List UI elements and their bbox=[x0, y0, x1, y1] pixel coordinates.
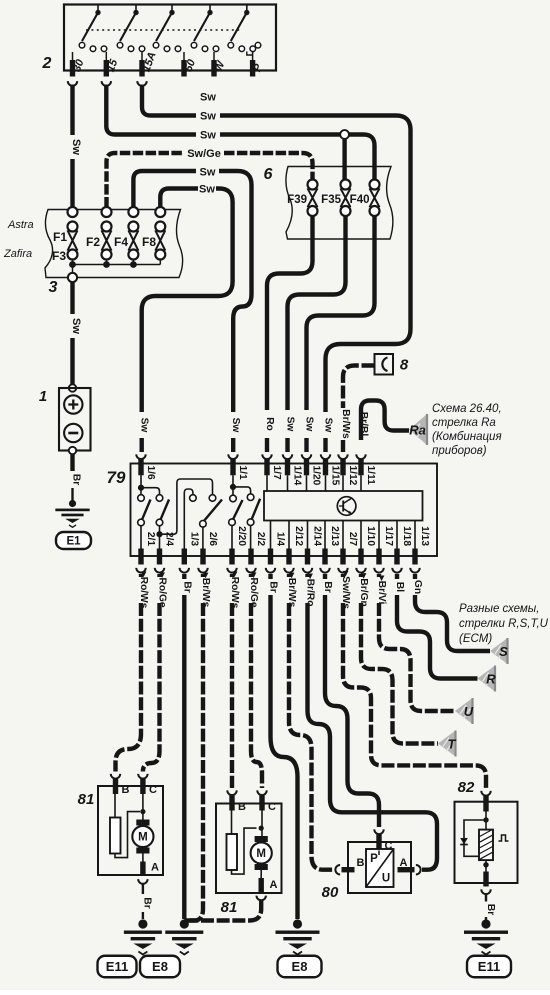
svg-text:E8: E8 bbox=[292, 959, 308, 974]
svg-text:1/12: 1/12 bbox=[347, 466, 358, 486]
svg-text:F35: F35 bbox=[321, 194, 341, 206]
svg-text:стрелка Ra: стрелка Ra bbox=[432, 417, 496, 429]
svg-text:E11: E11 bbox=[478, 959, 500, 974]
svg-text:Br/Ws: Br/Ws bbox=[340, 409, 351, 439]
svg-text:B: B bbox=[357, 857, 365, 869]
svg-text:▸Ro/Ge: ▸Ro/Ge bbox=[248, 571, 259, 607]
svg-text:▸Ro/Ge: ▸Ro/Ge bbox=[157, 571, 168, 607]
svg-text:▸Sw/Ws: ▸Sw/Ws bbox=[340, 570, 351, 609]
svg-text:(Комбинация: (Комбинация bbox=[432, 431, 502, 443]
svg-text:Astra: Astra bbox=[7, 219, 34, 231]
svg-text:(ECM): (ECM) bbox=[459, 633, 492, 645]
svg-text:C: C bbox=[149, 784, 157, 796]
svg-text:1/11: 1/11 bbox=[365, 466, 376, 486]
svg-text:F40: F40 bbox=[350, 194, 370, 206]
svg-text:1/15: 1/15 bbox=[330, 466, 341, 486]
svg-text:▸Br/Vi: ▸Br/Vi bbox=[376, 575, 387, 605]
svg-text:2/14: 2/14 bbox=[312, 526, 323, 546]
svg-text:Схема 26.40,: Схема 26.40, bbox=[432, 403, 502, 415]
svg-text:1/3: 1/3 bbox=[188, 532, 199, 546]
svg-text:S: S bbox=[499, 644, 508, 659]
svg-text:A: A bbox=[151, 862, 159, 874]
svg-text:1/4: 1/4 bbox=[275, 532, 286, 546]
svg-text:8: 8 bbox=[400, 357, 409, 374]
svg-text:U: U bbox=[464, 704, 474, 719]
svg-text:1: 1 bbox=[39, 388, 47, 405]
svg-text:Sw: Sw bbox=[323, 418, 334, 433]
svg-text:Sw: Sw bbox=[200, 91, 216, 103]
svg-text:82: 82 bbox=[458, 779, 475, 796]
svg-text:Sw: Sw bbox=[200, 110, 216, 122]
svg-text:F1: F1 bbox=[53, 230, 67, 244]
svg-text:M: M bbox=[138, 832, 148, 844]
svg-text:Bl: Bl bbox=[394, 582, 405, 592]
svg-text:1/14: 1/14 bbox=[292, 466, 303, 486]
svg-text:F39: F39 bbox=[287, 194, 307, 206]
svg-text:2/6: 2/6 bbox=[207, 532, 218, 546]
svg-text:2/12: 2/12 bbox=[293, 526, 304, 546]
svg-text:Sw: Sw bbox=[70, 318, 82, 334]
svg-text:U: U bbox=[382, 873, 390, 885]
svg-text:B: B bbox=[122, 784, 130, 796]
svg-text:2/13: 2/13 bbox=[329, 526, 340, 546]
svg-text:1/17: 1/17 bbox=[383, 526, 394, 546]
svg-text:80: 80 bbox=[322, 884, 339, 901]
svg-text:Gn: Gn bbox=[412, 580, 423, 594]
svg-text:Br: Br bbox=[268, 581, 279, 592]
svg-text:Br: Br bbox=[71, 474, 82, 485]
svg-text:Sw: Sw bbox=[304, 417, 315, 432]
svg-text:M: M bbox=[256, 848, 266, 860]
svg-text:1/20: 1/20 bbox=[311, 466, 322, 486]
svg-text:Br: Br bbox=[485, 904, 496, 915]
svg-text:Sw: Sw bbox=[200, 129, 216, 141]
svg-text:F8: F8 bbox=[142, 235, 156, 249]
svg-text:Br: Br bbox=[142, 897, 153, 908]
svg-text:E11: E11 bbox=[106, 959, 128, 974]
svg-text:Sw: Sw bbox=[230, 418, 241, 433]
svg-text:Sw/Ge: Sw/Ge bbox=[187, 148, 221, 160]
svg-text:E1: E1 bbox=[66, 536, 81, 548]
svg-text:Ra: Ra bbox=[409, 423, 426, 438]
svg-text:Разные схемы,: Разные схемы, bbox=[459, 603, 539, 615]
svg-text:Sw: Sw bbox=[200, 166, 216, 178]
svg-text:Br: Br bbox=[181, 581, 192, 592]
svg-text:3: 3 bbox=[49, 279, 58, 296]
svg-text:6: 6 bbox=[264, 166, 273, 183]
svg-text:T: T bbox=[448, 737, 457, 752]
svg-text:F3: F3 bbox=[52, 249, 66, 263]
svg-text:81: 81 bbox=[221, 899, 238, 916]
svg-text:1/13: 1/13 bbox=[419, 526, 430, 546]
svg-text:81: 81 bbox=[78, 791, 95, 808]
svg-text:P: P bbox=[370, 853, 378, 865]
svg-text:A: A bbox=[270, 879, 278, 891]
svg-text:C: C bbox=[268, 801, 276, 813]
svg-text:▸Br/Ws: ▸Br/Ws bbox=[200, 572, 211, 608]
svg-text:Ro: Ro bbox=[264, 417, 275, 431]
svg-text:2: 2 bbox=[42, 55, 52, 72]
svg-text:1/7: 1/7 bbox=[271, 466, 282, 480]
svg-text:▸Br/Ro: ▸Br/Ro bbox=[305, 573, 316, 607]
svg-text:1/10: 1/10 bbox=[365, 526, 376, 546]
svg-text:B: B bbox=[238, 801, 246, 813]
svg-text:▸Ro/Ws: ▸Ro/Ws bbox=[138, 571, 149, 609]
svg-text:стрелки R,S,T,U: стрелки R,S,T,U bbox=[459, 618, 549, 630]
svg-text:F4: F4 bbox=[114, 235, 128, 249]
svg-text:2/1: 2/1 bbox=[145, 532, 156, 546]
svg-text:2/7: 2/7 bbox=[347, 532, 358, 546]
svg-text:приборов): приборов) bbox=[432, 445, 487, 457]
svg-text:Sw: Sw bbox=[199, 184, 215, 196]
svg-text:E8: E8 bbox=[152, 959, 168, 974]
svg-text:2/2: 2/2 bbox=[255, 532, 266, 546]
svg-text:1/6: 1/6 bbox=[145, 466, 156, 480]
svg-text:Sw: Sw bbox=[285, 417, 296, 432]
svg-text:Sw: Sw bbox=[70, 139, 82, 155]
svg-text:Br: Br bbox=[322, 581, 333, 592]
svg-text:79: 79 bbox=[107, 468, 126, 487]
svg-text:1/1: 1/1 bbox=[237, 466, 248, 480]
svg-text:▸Br/Ws: ▸Br/Ws bbox=[286, 572, 297, 608]
svg-text:A: A bbox=[400, 857, 408, 869]
svg-text:F2: F2 bbox=[86, 235, 100, 249]
svg-text:▸Br/Gn: ▸Br/Gn bbox=[358, 572, 369, 606]
svg-text:Zafira: Zafira bbox=[3, 248, 32, 260]
svg-text:▸Ro/Ws: ▸Ro/Ws bbox=[229, 571, 240, 609]
svg-text:2/20: 2/20 bbox=[236, 526, 247, 546]
svg-text:Sw: Sw bbox=[139, 418, 150, 433]
svg-text:Br/Bl: Br/Bl bbox=[358, 412, 369, 437]
svg-text:R: R bbox=[486, 672, 496, 687]
svg-text:1/18: 1/18 bbox=[401, 526, 412, 546]
